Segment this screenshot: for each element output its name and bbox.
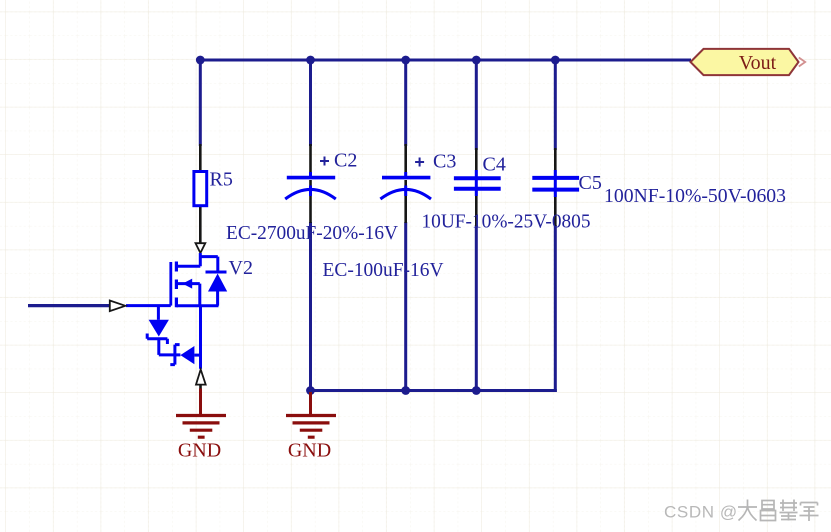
junction node at R5 / top rail	[196, 56, 205, 65]
wire C5 column bottom	[554, 225, 557, 392]
capacitor C5 pin 1 (black)	[554, 148, 557, 176]
zener diode D2 anode lead	[194, 354, 200, 357]
capacitor C4 plate 1	[454, 176, 501, 180]
zener diode D2 cathode bar with wings	[170, 345, 179, 365]
ground GND1 stub wire	[199, 389, 202, 416]
transistor V2 drain lead (blue)	[176, 253, 200, 266]
zener diode D1 cathode bar with wings	[147, 334, 167, 345]
junction node at C2 / top rail	[306, 56, 315, 65]
wire C2 column top	[309, 60, 312, 146]
svg-text:GND: GND	[288, 440, 331, 462]
capacitor C2 plus sign	[320, 157, 329, 166]
svg-text:GND: GND	[178, 440, 221, 462]
junction node at C4 / top rail	[472, 56, 481, 65]
ground GND2 stub wire	[309, 392, 312, 415]
zener diode D1 triangle	[149, 320, 169, 337]
port Vout flag	[691, 49, 799, 75]
transistor V2 body diode cathode bar	[206, 271, 227, 274]
transistor V2 body diode triangle	[208, 274, 227, 292]
wire C2 column bottom	[309, 222, 312, 391]
capacitor C5 pin ticks (blue)	[554, 170, 557, 197]
capacitor C3 pin 1 (black)	[404, 144, 407, 177]
wire gate input	[28, 304, 110, 307]
capacitor C2 positive plate	[287, 176, 335, 180]
transistor V2 gate bar	[169, 262, 172, 306]
resistor R5 body	[194, 172, 207, 206]
wire C3 column bottom	[404, 222, 407, 391]
svg-text:10UF-10%-25V-0805: 10UF-10%-25V-0805	[422, 211, 591, 233]
capacitor C3 plus sign	[415, 158, 424, 167]
junction node at C2 / ground rail	[306, 386, 315, 395]
capacitor C4 pin ticks (blue)	[475, 170, 478, 196]
wire top rail Vout net	[200, 59, 691, 62]
zener diode D1 anode lead	[157, 306, 160, 320]
svg-text:C5: C5	[579, 172, 602, 194]
wire C4 column top	[475, 60, 478, 150]
zener diode D2 triangle	[180, 346, 194, 364]
capacitor C2 pin ticks (blue)	[309, 172, 312, 196]
wire C4 column bottom	[475, 225, 478, 391]
transistor V2 source pin arrow (hollow)	[196, 369, 206, 384]
transistor V2 body stub with arrow	[176, 284, 199, 306]
transistor V2 gate lead	[126, 304, 171, 307]
transistor V2 drain pin arrow (hollow)	[196, 243, 206, 253]
junction node at C4 / ground rail	[472, 386, 481, 395]
svg-text:Vout: Vout	[739, 52, 777, 74]
ground GND1 symbol bars	[176, 416, 226, 438]
transistor V2 source lead	[199, 306, 202, 369]
transistor V2 drain to body-diode link	[200, 257, 218, 272]
capacitor C3 positive plate	[382, 176, 430, 180]
port Vout tail arrow	[799, 58, 805, 67]
svg-text:V2: V2	[229, 257, 253, 279]
svg-text:EC-100uF-16V: EC-100uF-16V	[323, 259, 445, 281]
junction node at C3 / top rail	[401, 56, 410, 65]
wire C5 column top	[554, 60, 557, 150]
transistor V2 source pin stub (black)	[199, 385, 202, 389]
capacitor C2 pin 1 (black)	[309, 144, 312, 177]
zener diode D1 to D2 link wire	[159, 339, 181, 355]
ground GND2 symbol bars	[286, 416, 336, 438]
resistor R5 pin 2	[199, 207, 202, 244]
svg-text:CSDN @: CSDN @	[664, 503, 738, 522]
svg-text:C4: C4	[483, 154, 506, 176]
wire C3 column top	[404, 60, 407, 146]
junction node at C3 / ground rail	[401, 386, 410, 395]
capacitor C5 plate 2	[532, 188, 579, 192]
wire bottom ground rail	[311, 389, 557, 392]
capacitor C3 pin ticks (blue)	[404, 172, 407, 196]
svg-text:C3: C3	[433, 151, 456, 173]
svg-text:R5: R5	[210, 169, 233, 191]
transistor V2 source line	[176, 304, 218, 307]
resistor R5 pin 1	[199, 144, 202, 171]
transistor V2 body arrow head	[183, 279, 193, 289]
capacitor C2 pin 2 (black)	[309, 180, 312, 223]
svg-text:100NF-10%-50V-0603: 100NF-10%-50V-0603	[604, 185, 786, 207]
transistor V2 body diode lead	[216, 292, 219, 306]
svg-text:C2: C2	[334, 150, 357, 172]
watermark CJK glyphs (approximation)	[738, 500, 819, 522]
capacitor C4 pin 2 (black)	[475, 191, 478, 226]
transistor V2 gate input arrow (hollow)	[110, 301, 126, 312]
transistor V2 drain pin (black lead)	[199, 242, 202, 245]
capacitor C5 pin 2 (black)	[554, 192, 557, 226]
wire R5 column top	[199, 60, 202, 146]
junction node at C5 / top rail	[551, 56, 560, 65]
capacitor C4 plate 2	[454, 187, 501, 191]
capacitor C4 pin 1 (black)	[475, 148, 478, 176]
transistor V2 channel bar segments	[175, 262, 178, 308]
capacitor C5 plate 1	[532, 176, 579, 180]
capacitor C3 pin 2 (black)	[404, 180, 407, 223]
capacitor C2 curved plate	[285, 189, 336, 199]
svg-text:EC-2700uF-20%-16V: EC-2700uF-20%-16V	[226, 222, 399, 244]
capacitor C3 curved plate	[380, 189, 431, 199]
